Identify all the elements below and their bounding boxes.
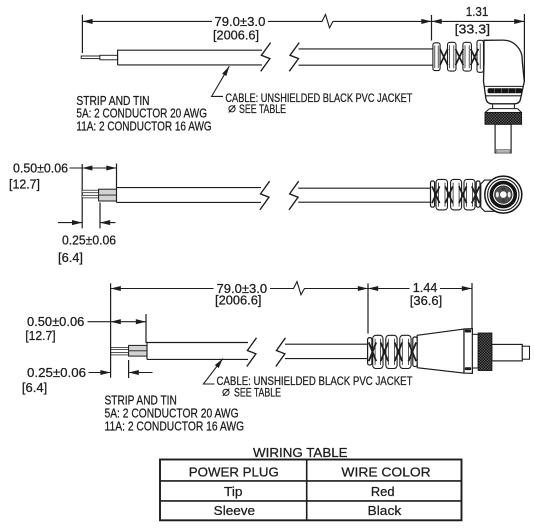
- band text mark bottom: [465, 367, 471, 370]
- arrowhead 0.50 left: [82, 165, 92, 170]
- svg-text:[2006.6]: [2006.6]: [213, 28, 259, 43]
- svg-text:Black: Black: [368, 503, 402, 518]
- dimension line 79.0 (right segment with break glyph): [268, 15, 432, 28]
- dimension line 0.25 left part: [58, 222, 82, 224]
- strain relief valley X 1: [440, 49, 448, 65]
- stripped wire lower: [82, 195, 99, 198]
- strain relief end ring: [476, 181, 480, 207]
- strain relief valley X 3: [472, 186, 480, 203]
- svg-text:[33.3]: [33.3]: [455, 21, 491, 36]
- cable lines to plug: [285, 344, 368, 358]
- svg-text:0.50±0.06: 0.50±0.06: [27, 314, 84, 329]
- diameter symbol: [223, 389, 230, 396]
- svg-text:0.50±0.06: 0.50±0.06: [13, 161, 68, 176]
- svg-text:WIRING TABLE: WIRING TABLE: [253, 445, 348, 460]
- dimension line 0.25 right part: [100, 222, 116, 224]
- plug face second circle: [488, 179, 519, 210]
- stripped wire lower: [111, 353, 129, 355]
- neck below body: [485, 104, 521, 113]
- arrowhead 1.31 left: [432, 19, 442, 24]
- cable break zigzag 1: [247, 338, 257, 367]
- cable break zigzag 2: [276, 338, 286, 367]
- table header separator: [160, 480, 462, 482]
- body band: [464, 329, 472, 374]
- dimension line 0.25 right part: [129, 372, 153, 374]
- svg-text:SEE TABLE: SEE TABLE: [234, 386, 281, 399]
- dimension line 0.50: [88, 321, 147, 323]
- svg-text:Sleeve: Sleeve: [214, 503, 255, 518]
- svg-text:1.31: 1.31: [466, 4, 489, 19]
- svg-text:STRIP AND TIN: STRIP AND TIN: [105, 394, 177, 408]
- extension line insulation end: [128, 360, 130, 378]
- extension line at strain relief start: [431, 15, 433, 41]
- strain relief barrel 1: [436, 179, 448, 210]
- arrowhead 0.25 left: [72, 220, 82, 225]
- strain relief valley X 2: [456, 49, 464, 65]
- plug body side (behind circle): [481, 180, 503, 211]
- cable break zigzag 2: [289, 43, 299, 72]
- extension line left (wire tip datum): [81, 15, 83, 53]
- leader arrowhead: [215, 357, 225, 368]
- neck ring: [472, 334, 478, 368]
- svg-text:SEE TABLE: SEE TABLE: [239, 103, 286, 116]
- strain relief barrel 3: [464, 179, 475, 210]
- strain relief barrel 2: [448, 42, 457, 71]
- table column divider: [306, 460, 308, 521]
- svg-text:[2006.6]: [2006.6]: [215, 292, 262, 307]
- arrowhead 79.0 left: [82, 19, 92, 24]
- diameter symbol: [229, 105, 236, 112]
- strain relief flange: [368, 338, 372, 365]
- dimension line 1.44 left segment: [368, 288, 410, 290]
- table outer border: [160, 460, 462, 521]
- barrel tip: [522, 346, 529, 359]
- bore highlight left: [496, 192, 499, 198]
- arrowhead 79.0 left: [111, 286, 121, 291]
- plug barrel: [495, 124, 511, 153]
- strain relief barrel 2: [386, 335, 397, 368]
- arrowhead 1.44 right: [462, 286, 472, 291]
- stripped tinned wire: [81, 56, 100, 59]
- strain relief barrel 1: [433, 43, 440, 71]
- svg-text:[12.7]: [12.7]: [25, 328, 55, 343]
- strain relief valley X 2: [395, 342, 403, 361]
- extension line plug nut: [471, 283, 473, 329]
- strain relief valley X 0: [432, 186, 440, 203]
- dimension line 0.25 left part: [89, 372, 111, 374]
- body band line lower: [485, 95, 522, 97]
- table row separator: [160, 500, 462, 502]
- strain relief valley X 0: [369, 342, 376, 361]
- arrowhead 0.25 left: [100, 370, 110, 375]
- svg-text:WIRE COLOR: WIRE COLOR: [341, 465, 430, 480]
- strain relief barrel 2: [451, 179, 462, 210]
- strain relief valley X 3: [471, 49, 479, 65]
- conductor insulation pair: [99, 189, 117, 201]
- strain relief barrel 3: [400, 335, 411, 368]
- svg-text:11A: 2 CONDUCTOR 16 AWG: 11A: 2 CONDUCTOR 16 AWG: [76, 119, 211, 133]
- cable lines to plug: [299, 49, 434, 65]
- dimension line 1.44 right segment: [440, 288, 472, 290]
- right-angle plug body: [484, 40, 525, 104]
- strain relief barrel 1: [373, 335, 383, 368]
- plug face black ring: [491, 183, 515, 207]
- body band line upper: [484, 85, 523, 87]
- svg-text:11A: 2 CONDUCTOR 16 AWG: 11A: 2 CONDUCTOR 16 AWG: [105, 419, 245, 433]
- svg-text:POWER PLUG: POWER PLUG: [189, 465, 279, 480]
- cable lines to plug: [298, 188, 431, 202]
- cable jacket (left of break): [147, 343, 248, 360]
- extension line jacket end: [116, 164, 118, 188]
- arrowhead 1.44 left: [368, 286, 378, 291]
- dimension line 79.0 (right segment with break glyph): [270, 282, 368, 295]
- strain relief end ring: [413, 337, 417, 367]
- cable break zigzag 1: [260, 181, 270, 210]
- arrowhead 1.31 right: [514, 19, 524, 24]
- leader for cable note: [212, 66, 230, 96]
- arrowhead 0.25 right: [129, 370, 139, 375]
- leader arrowhead: [222, 65, 231, 76]
- knurled nut: [485, 112, 522, 124]
- dimension line 79.0 (left segment): [111, 288, 214, 290]
- strain relief valley X 2: [459, 186, 467, 203]
- strain relief flange: [431, 181, 435, 207]
- knurled nut: [478, 333, 492, 371]
- cable jacket (left of break): [117, 188, 262, 203]
- dimension line 0.50: [70, 167, 117, 169]
- cable jacket (left of break): [118, 50, 262, 65]
- bore highlight right: [508, 192, 511, 198]
- stripped wire upper: [111, 347, 129, 349]
- cable break zigzag 1: [261, 43, 271, 72]
- plug barrel: [492, 344, 522, 361]
- stripped wire upper: [82, 190, 99, 193]
- barrel tip band: [496, 150, 510, 153]
- band text mark top: [465, 330, 471, 333]
- arrowhead 0.50 left: [111, 319, 121, 324]
- arrowhead 0.50 right: [136, 319, 146, 324]
- strain relief valley X 3: [409, 342, 417, 361]
- svg-text:[36.6]: [36.6]: [410, 293, 442, 308]
- strain relief valley X 1: [445, 186, 453, 203]
- extension line strain relief start: [367, 283, 369, 333]
- arrowhead 79.0 right: [421, 19, 431, 24]
- strain relief end barrel 4: [477, 40, 484, 72]
- conductor insulation pair: [129, 345, 147, 356]
- leader for cable note: [203, 359, 222, 384]
- plug face outer circle: [485, 176, 522, 213]
- svg-text:0.25±0.06: 0.25±0.06: [62, 232, 116, 247]
- extension line wire tip: [81, 164, 83, 228]
- extension line right (plug widest point): [523, 14, 525, 82]
- arrowhead 0.25 right: [100, 220, 110, 225]
- centre pin: [500, 191, 507, 198]
- extension line jacket end: [145, 314, 147, 343]
- dimension line 1.31: [432, 20, 525, 22]
- svg-text:Tip: Tip: [224, 484, 243, 499]
- svg-text:[6.4]: [6.4]: [22, 380, 47, 395]
- conductor insulation: [100, 55, 118, 60]
- strain relief valley X 1: [381, 342, 389, 361]
- svg-text:[12.7]: [12.7]: [9, 176, 40, 191]
- dimension line 79.0 (left segment): [82, 20, 212, 22]
- extension line insulation end: [99, 203, 101, 229]
- strain relief barrel 3: [463, 42, 472, 71]
- tapered plug body: [417, 329, 464, 373]
- arrowhead 79.0 right: [358, 286, 368, 291]
- svg-text:[6.4]: [6.4]: [58, 250, 83, 265]
- moulded brand label: [488, 88, 523, 93]
- cable break zigzag 2: [289, 181, 299, 210]
- extension line wire tip (tall): [110, 283, 112, 377]
- plug face knurled bore: [495, 186, 513, 204]
- svg-text:Red: Red: [371, 484, 395, 499]
- arrowhead 0.50 right: [106, 165, 116, 170]
- svg-text:0.25±0.06: 0.25±0.06: [27, 365, 86, 380]
